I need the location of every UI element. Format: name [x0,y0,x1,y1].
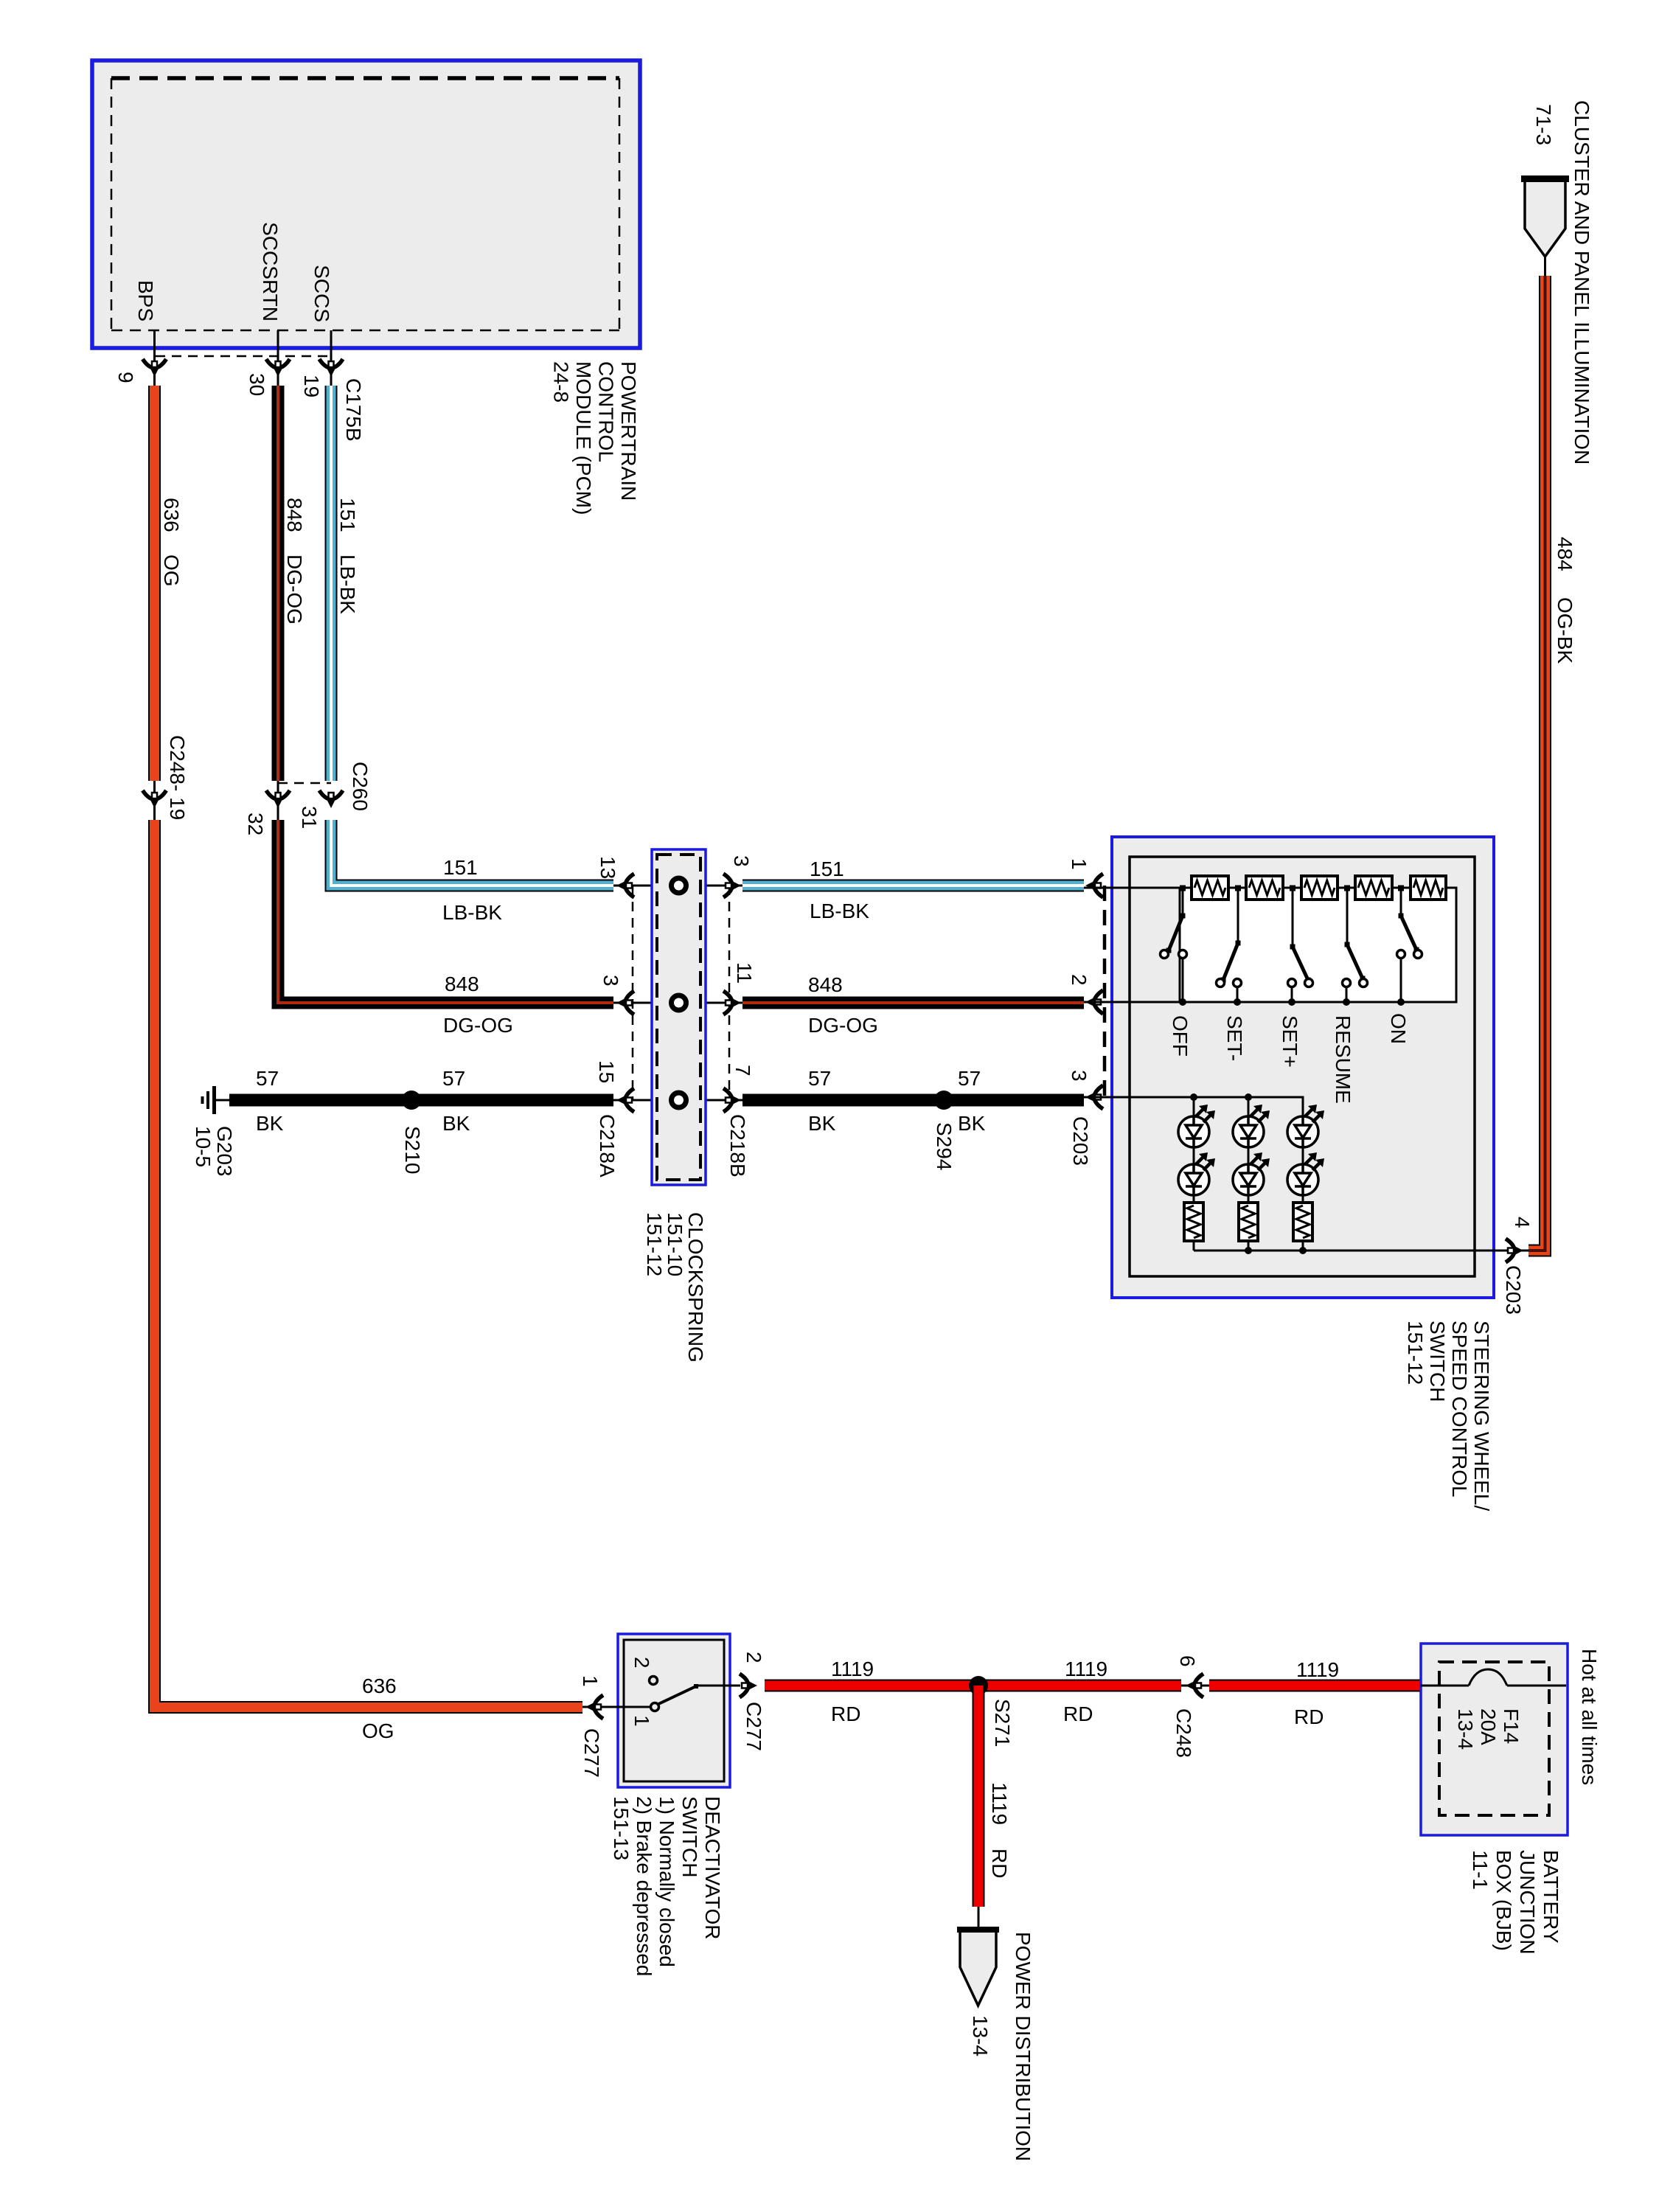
svg-text:32: 32 [244,813,267,835]
svg-text:1119: 1119 [831,1658,874,1680]
svg-text:151-10: 151-10 [664,1212,686,1276]
label CLUSTER AND PANEL ILLUMINATION [1571,100,1593,465]
ground G203 symbol [203,1086,232,1114]
switch bottom bus [1084,1001,1456,1004]
svg-text:POWER DISTRIBUTION: POWER DISTRIBUTION [1012,1932,1034,2161]
svg-text:SET+: SET+ [1279,1015,1301,1068]
pin number 3 [1068,1070,1091,1082]
label OG-BK [1554,597,1576,664]
svg-text:19: 19 [300,375,323,397]
label BK left [256,1112,284,1135]
svg-text:DG-OG: DG-OG [808,1014,878,1037]
steering wheel switch name label [1404,1321,1493,1511]
svg-text:13-4: 13-4 [969,2015,992,2056]
svg-text:9: 9 [114,372,137,383]
label 151 vertical [336,498,359,532]
clockspring through-wire bottom [613,1099,742,1102]
svg-text:BK: BK [256,1112,284,1135]
svg-text:SPEED CONTROL: SPEED CONTROL [1448,1321,1471,1498]
label DG-OG right [808,1014,878,1037]
C218A pin 13 arrow [616,874,634,897]
resistor R5 [1411,876,1446,900]
connector C260 pin 32 arrow [266,790,290,808]
wire joint line at C260 pin32 [277,781,279,820]
svg-text:G203: G203 [213,1126,236,1177]
label OG horizontal [362,1719,394,1742]
label 2 inside [630,1657,653,1669]
connector label C260 [349,762,372,811]
label RD vertical [988,1848,1011,1878]
deactivator pin1 line [582,1706,651,1708]
splice S210 dot [402,1091,421,1110]
pin number 9 [114,372,137,383]
wire 151 LB-BK upper segment [325,386,338,781]
svg-text:30: 30 [246,373,268,396]
PCM connector dashed outline [111,78,619,330]
svg-text:DG-OG: DG-OG [283,554,306,625]
connector C248-19 arrow [143,790,167,808]
switch OFF [1161,886,1187,1006]
deactivator contact 1 circle [651,1703,659,1711]
svg-text:F14: F14 [1500,1708,1523,1744]
wire 848 DG-OG right segment [742,997,1084,1009]
clockspring box [652,849,706,1185]
pin number 15 [595,1060,618,1083]
svg-text:SCCS: SCCS [310,265,333,322]
svg-text:2) Brake depressed: 2) Brake depressed [633,1796,655,1976]
svg-text:BK: BK [808,1112,836,1135]
label LB-BK left [442,901,502,924]
label RD seg2 [1063,1703,1093,1725]
clockspring through-wire middle [613,1002,742,1004]
svg-text:7: 7 [731,1065,754,1077]
steering wheel switch inner box [1130,857,1475,1276]
wire 1119 RD left segment [765,1680,1181,1692]
LED column 2 wire [1248,1097,1250,1251]
pin number 11 [733,962,756,984]
svg-text:2: 2 [1068,974,1091,986]
label 71-3 [1532,104,1555,145]
pin number 19 [300,375,323,397]
label 151 right [810,858,844,880]
label SET- [1223,1015,1246,1061]
switch RESUME [1343,886,1368,1006]
svg-text:151-13: 151-13 [610,1796,633,1860]
svg-text:13: 13 [597,856,619,879]
pin number 3 right [730,855,753,867]
C203 pin 1 arrow [1085,874,1103,897]
connector C175B dashed line [156,355,333,358]
svg-text:13-4: 13-4 [1454,1708,1477,1750]
LED D5 [1233,1152,1270,1195]
pin number 31 [298,806,321,829]
pin number 13 [597,856,619,879]
LED bottom bus [1194,1250,1528,1252]
wire 151 LB-BK to clockspring [331,820,613,886]
label 1119 vertical [988,1782,1011,1825]
svg-text:C218A: C218A [596,1114,619,1178]
svg-text:SWITCH: SWITCH [678,1796,701,1877]
fuse F14 element [1421,1669,1566,1686]
svg-text:11: 11 [733,962,756,984]
wire 151 LB-BK right segment [742,880,1084,892]
splice label S271 [991,1699,1014,1747]
svg-text:15: 15 [595,1060,618,1083]
label 848 right [808,973,843,996]
svg-text:11-1: 11-1 [1469,1850,1492,1890]
svg-text:151: 151 [443,856,478,879]
svg-text:1119: 1119 [988,1782,1011,1825]
svg-text:24-8: 24-8 [550,361,573,403]
connector C260 pin 31 arrow [319,790,343,808]
label 57 left [256,1067,279,1090]
connector pin 19 arrow [319,359,343,377]
label 848 left [445,973,479,995]
svg-text:C248: C248 [1172,1708,1195,1758]
label RD seg1 [831,1703,860,1725]
svg-text:31: 31 [298,806,321,829]
LED feed junction dot col1 [1190,1093,1197,1101]
svg-text:10-5: 10-5 [192,1126,215,1167]
battery junction box [1421,1644,1568,1835]
svg-text:1: 1 [630,1715,653,1727]
label 636 vertical [160,498,183,532]
label 1119 seg2 [1065,1658,1107,1680]
label BK right2 [958,1112,986,1135]
clockspring ring middle [672,995,686,1010]
wire joint line at C248-19 [153,781,156,820]
switch SET+ [1288,886,1313,1006]
svg-text:DEACTIVATOR: DEACTIVATOR [701,1796,724,1939]
svg-text:BK: BK [442,1112,470,1135]
C203 pin 3 arrow [1085,1085,1103,1109]
svg-text:151-12: 151-12 [1404,1321,1427,1385]
svg-text:1: 1 [579,1675,602,1687]
C218B pin 7 arrow [723,1088,741,1112]
C277 pin 2 arrow [740,1674,757,1697]
pin number 7 [731,1065,754,1077]
switch resistor network white box [1180,888,1456,1002]
wire 636 OG lower segment [155,820,583,1708]
svg-text:57: 57 [442,1067,465,1090]
svg-text:C203: C203 [1502,1265,1525,1315]
svg-text:BATTERY: BATTERY [1540,1850,1562,1944]
svg-text:57: 57 [256,1067,279,1090]
PCM pin label BPS [134,280,157,321]
wire 848 DG-OG upper segment [272,386,285,781]
pin number 3 left [599,975,622,987]
wire 1119 RD vertical segment [973,1686,985,1907]
wire 848 DG-OG to clockspring [278,820,613,1003]
svg-text:S294: S294 [933,1122,956,1170]
PCM pin label SCCS [310,265,333,322]
clockspring ring bottom [672,1093,686,1107]
svg-text:151-12: 151-12 [643,1212,666,1276]
wire 57 BK left segment [229,1094,613,1107]
label 57 mid [442,1067,465,1090]
pin number 6 [1176,1655,1199,1667]
svg-text:BPS: BPS [134,280,157,321]
fuse F14 dashed box [1439,1662,1549,1815]
pin number 1 [1068,858,1091,870]
svg-text:4: 4 [1511,1217,1534,1228]
LED D6 [1287,1152,1324,1195]
connector label C248- 19 [166,735,189,820]
svg-text:2: 2 [742,1652,765,1663]
svg-text:LB-BK: LB-BK [810,900,869,922]
label 1 inside [630,1715,653,1727]
label ON [1387,1013,1410,1044]
LED D1 [1178,1105,1215,1147]
wire stub below pentagon [1544,257,1546,279]
clockspring name label [643,1212,707,1363]
C277 pin 1 arrow [585,1695,603,1719]
resistor R6 [1184,1203,1203,1241]
PCM pin 19 stub wire [330,330,333,386]
switch ON [1397,886,1422,1006]
label 57 right1 [808,1067,831,1090]
C218B pin 11 arrow [723,991,741,1015]
label 636 horizontal [362,1674,397,1697]
svg-text:STEERING WHEEL/: STEERING WHEEL/ [1470,1321,1493,1511]
svg-text:C175B: C175B [342,378,365,442]
svg-text:2: 2 [630,1657,653,1669]
svg-text:JUNCTION: JUNCTION [1516,1850,1539,1955]
label DG-OG vertical [283,554,306,625]
svg-text:RD: RD [1063,1703,1093,1725]
svg-text:CLUSTER AND PANEL ILLUMINATION: CLUSTER AND PANEL ILLUMINATION [1571,100,1593,465]
label OG vertical [160,554,183,587]
connector label C277 right [742,1702,765,1751]
pin number 2 C277 [742,1652,765,1663]
svg-text:3: 3 [730,855,753,867]
svg-text:CONTROL: CONTROL [595,361,618,462]
connector C218B dashed link [728,886,731,1100]
C218B pin 3 arrow [723,874,741,897]
PCM pin 9 stub wire [153,330,156,386]
clockspring through-wire top [613,885,742,887]
svg-text:57: 57 [958,1067,981,1090]
resistor R4 [1355,876,1392,900]
svg-text:3: 3 [1068,1070,1091,1082]
wire 636 OG upper segment [148,386,161,781]
label Hot at all times [1578,1649,1601,1785]
label DG-OG left [443,1014,513,1037]
svg-text:57: 57 [808,1067,831,1090]
svg-text:C277: C277 [580,1728,603,1778]
svg-text:RESUME: RESUME [1332,1015,1354,1104]
steering wheel switch outer box [1112,837,1494,1298]
connector pin 30 arrow [266,359,290,377]
svg-text:C248- 19: C248- 19 [166,735,189,820]
svg-text:3: 3 [599,975,622,987]
LED D2 [1233,1105,1270,1147]
switch top bus [1084,887,1456,889]
svg-text:1) Normally closed: 1) Normally closed [655,1796,678,1967]
PCM pin label SCCSRTN [259,222,282,321]
svg-text:848: 848 [808,973,843,996]
splice label S294 [933,1122,956,1170]
LED D3 [1287,1105,1324,1147]
label LB-BK vertical [336,554,359,614]
resistor R3 [1301,876,1338,900]
svg-text:SET-: SET- [1223,1015,1246,1061]
connector label C277 left [580,1728,603,1778]
label 1119 seg3 [1296,1658,1339,1681]
pin number 1 C277 [579,1675,602,1687]
svg-text:RD: RD [1294,1705,1324,1728]
LED bus junction dot col2 [1245,1247,1252,1254]
resistor R1 [1192,876,1228,900]
svg-text:C203: C203 [1069,1116,1092,1166]
svg-text:OG: OG [362,1719,394,1742]
PCM name label [550,361,641,515]
label SET+ [1279,1015,1301,1068]
svg-text:OG: OG [160,554,183,587]
deactivator switch name label [610,1796,724,1976]
deactivator switch box [618,1634,730,1787]
svg-text:S271: S271 [991,1699,1014,1747]
svg-text:BOX (BJB): BOX (BJB) [1492,1850,1515,1951]
connector label C218B [726,1114,749,1178]
splice S271 dot [969,1676,988,1695]
svg-text:6: 6 [1176,1655,1199,1667]
LED column 3 wire [1302,1116,1304,1251]
svg-text:Hot at all times: Hot at all times [1578,1649,1601,1785]
svg-text:20A: 20A [1477,1708,1500,1745]
svg-text:ON: ON [1387,1013,1410,1044]
connector label C175B [342,378,365,442]
label 57 right2 [958,1067,981,1090]
label LB-BK right [810,900,869,922]
svg-text:151: 151 [336,498,359,532]
LED bus junction dot col3 [1299,1247,1307,1254]
resistor R7 [1239,1203,1258,1241]
splice label S210 [401,1126,424,1174]
pin number 32 [244,813,267,835]
C218A pin 15 arrow [616,1088,634,1112]
svg-text:C218B: C218B [726,1114,749,1178]
resistor R2 [1246,876,1283,900]
wire joint line at C248 [1181,1685,1209,1687]
pin number 30 [246,373,268,396]
svg-text:RD: RD [988,1848,1011,1878]
svg-text:MODULE (PCM): MODULE (PCM) [572,361,595,515]
connector label C203 left [1069,1116,1092,1166]
label OFF [1169,1015,1192,1057]
svg-text:LB-BK: LB-BK [442,901,502,924]
LED D4 [1178,1152,1215,1195]
splice S294 dot [934,1091,953,1110]
powertrain control module PCM box [92,60,640,348]
wire 1119 RD right segment [1209,1680,1421,1692]
svg-text:S210: S210 [401,1126,424,1174]
LED column 1 wire [1193,1097,1195,1251]
svg-text:POWERTRAIN: POWERTRAIN [617,361,640,501]
svg-text:C260: C260 [349,762,372,811]
fuse label F14 20A 13-4 [1454,1708,1523,1750]
label RESUME [1332,1015,1354,1104]
svg-text:848: 848 [445,973,479,995]
svg-text:OFF: OFF [1169,1015,1192,1057]
connector C218A dashed link [632,886,634,1100]
C218A pin 3 arrow [616,991,634,1015]
svg-text:CLOCKSPRING: CLOCKSPRING [684,1212,707,1363]
svg-text:OG-BK: OG-BK [1554,597,1576,664]
svg-text:SCCSRTN: SCCSRTN [259,222,282,321]
connector pin 9 arrow [143,359,167,377]
label BK right1 [808,1112,836,1135]
LED feed junction dot col2 [1245,1093,1252,1101]
off-page connector POWER DISTRIBUTION [957,1927,999,2006]
connector label C218A [596,1114,619,1178]
label POWER DISTRIBUTION [1012,1932,1034,2161]
deactivator contact 2 circle [650,1677,658,1685]
svg-text:SWITCH: SWITCH [1426,1321,1449,1402]
label RD seg3 [1294,1705,1324,1728]
svg-text:151: 151 [810,858,844,880]
wire 484 OG-BK [1528,276,1545,1251]
deactivator lever [657,1684,698,1705]
svg-text:DG-OG: DG-OG [443,1014,513,1037]
ground label G203 10-5 [192,1126,236,1177]
C203 pin 2 arrow [1085,990,1103,1014]
svg-text:636: 636 [362,1674,397,1697]
connector C203 dashed link [1103,886,1107,1097]
C248 pin 6 arrow [1186,1674,1203,1697]
label 151 left [443,856,478,879]
pin number 2 [1068,974,1091,986]
label 1119 seg1 [831,1658,874,1680]
label 484 [1554,537,1576,571]
C203 pin 4 arrow [1506,1239,1523,1262]
battery junction box name label [1469,1850,1562,1955]
svg-text:RD: RD [831,1703,860,1725]
LED feed line from pin 3 [1084,1097,1303,1116]
svg-text:636: 636 [160,498,183,532]
wire 57 BK right segment [742,1094,1084,1107]
svg-text:71-3: 71-3 [1532,104,1555,145]
label BK mid [442,1112,470,1135]
connector C260 dashed link [278,782,331,785]
svg-text:848: 848 [283,498,306,532]
PCM pin 30 stub wire [277,330,279,386]
svg-text:LB-BK: LB-BK [336,554,359,614]
off-page connector CLUSTER AND PANEL ILLUMINATION [1521,175,1569,257]
deactivator pin2 line [696,1685,740,1687]
switch SET- [1217,886,1242,1006]
svg-text:1119: 1119 [1065,1658,1107,1680]
wire stub to power distribution [978,1907,980,1930]
svg-text:1119: 1119 [1296,1658,1339,1681]
svg-text:BK: BK [958,1112,986,1135]
connector label C203 right [1502,1265,1525,1315]
connector label C248 [1172,1708,1195,1758]
svg-text:1: 1 [1068,858,1091,870]
svg-text:C277: C277 [742,1702,765,1751]
resistor R8 [1293,1203,1312,1241]
svg-text:484: 484 [1554,537,1576,571]
pin number 4 [1511,1217,1534,1228]
clockspring ring top [672,878,686,893]
label 848 vertical [283,498,306,532]
label 13-4 [969,2015,992,2056]
